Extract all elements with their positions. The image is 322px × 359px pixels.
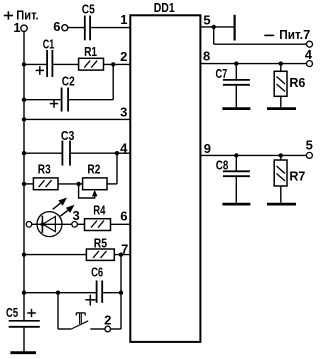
svg-text:2: 2 (104, 313, 111, 328)
svg-text:R2: R2 (87, 161, 100, 176)
svg-text:4: 4 (120, 140, 128, 155)
svg-text:9: 9 (204, 141, 211, 156)
svg-text:5: 5 (306, 138, 313, 153)
svg-text:R5: R5 (94, 235, 107, 250)
svg-text:6: 6 (53, 19, 60, 34)
svg-text:R3: R3 (38, 161, 51, 176)
svg-text:C7: C7 (216, 66, 228, 81)
svg-text:R7: R7 (289, 169, 305, 184)
svg-text:5: 5 (203, 13, 210, 28)
svg-text:R4: R4 (93, 203, 106, 218)
svg-text:R1: R1 (84, 44, 97, 59)
svg-text:C1: C1 (43, 37, 55, 52)
svg-text:7: 7 (121, 242, 128, 257)
svg-text:DD1: DD1 (154, 0, 175, 15)
svg-text:C6: C6 (91, 265, 103, 280)
svg-text:6: 6 (120, 209, 127, 224)
svg-text:1: 1 (120, 12, 127, 27)
svg-text:2: 2 (120, 49, 127, 64)
svg-text:C5: C5 (6, 305, 18, 320)
svg-text:7: 7 (303, 27, 310, 42)
svg-text:C3: C3 (61, 128, 75, 143)
svg-text:C8: C8 (216, 158, 229, 173)
svg-text:3: 3 (72, 208, 79, 223)
svg-text:Пит.: Пит. (279, 27, 303, 42)
svg-text:3: 3 (120, 104, 127, 119)
svg-text:C2: C2 (62, 74, 75, 89)
svg-text:C5: C5 (82, 1, 95, 16)
svg-text:1: 1 (13, 20, 20, 35)
svg-text:R6: R6 (289, 75, 305, 90)
svg-text:8: 8 (203, 48, 210, 63)
svg-text:4: 4 (305, 47, 313, 62)
